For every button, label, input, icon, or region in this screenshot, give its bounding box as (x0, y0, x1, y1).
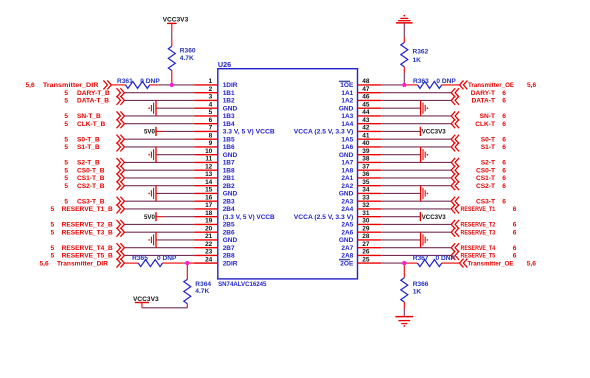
resistor R365 (138, 260, 162, 267)
wire pin 34 stub (358, 192, 382, 194)
svg-text:RESERVE_T3_B: RESERVE_T3_B (62, 229, 113, 236)
svg-text:S2-T: S2-T (481, 160, 495, 167)
svg-text:25: 25 (362, 256, 370, 263)
ground symbol at pin 4 (148, 100, 156, 116)
wire pin 19 stub (194, 223, 218, 225)
off-page connector S1-T_B (117, 142, 125, 151)
svg-text:48: 48 (362, 78, 370, 85)
svg-text:U26: U26 (218, 60, 231, 69)
svg-text:5: 5 (64, 160, 68, 167)
wire pin 38 stub (358, 161, 382, 163)
svg-text:CLK-T: CLK-T (475, 121, 495, 128)
svg-text:2B1: 2B1 (223, 175, 235, 182)
svg-text:R366: R366 (413, 281, 429, 288)
svg-text:2B2: 2B2 (223, 183, 235, 190)
wire pin 14 stub (194, 185, 218, 187)
wire pin 27 stub (358, 247, 382, 249)
svg-text:S1-T: S1-T (481, 144, 495, 151)
power symbol VCC3V3 top left (167, 22, 177, 24)
svg-text:VCC3V3: VCC3V3 (163, 17, 189, 24)
wire R363 to connector (442, 84, 460, 86)
wire R366 to ground (403, 309, 405, 316)
wire pin 3 stub (194, 99, 218, 101)
svg-text:36: 36 (362, 171, 370, 178)
svg-text:0 DNP: 0 DNP (157, 255, 177, 262)
wire pin 4 stub (194, 107, 218, 109)
wire pin 44 stub (358, 115, 382, 117)
svg-text:6: 6 (513, 222, 517, 229)
wire R367 to connector (442, 262, 460, 264)
wire VCC3V3 to R360 mid (171, 31, 173, 40)
off-page connector DATA-T (451, 96, 459, 105)
wire pin 45 stub (358, 107, 382, 109)
svg-text:3: 3 (209, 94, 213, 101)
wire net SN-T_B (124, 115, 194, 117)
junction node pin48 (402, 83, 406, 87)
wire net CS3-T_B (124, 200, 194, 202)
wire net S2-T_B (124, 161, 194, 163)
svg-text:SN-T_B: SN-T_B (77, 113, 101, 120)
wire net RESERVE_T1 (381, 208, 451, 210)
svg-text:43: 43 (362, 117, 370, 124)
svg-text:SN74ALVC16245: SN74ALVC16245 (218, 281, 267, 288)
svg-text:1A6: 1A6 (341, 144, 353, 151)
wire net RESERVE_T4_B (124, 247, 194, 249)
power tap 5V0 pin 7 (155, 127, 157, 136)
svg-text:GND: GND (339, 191, 354, 198)
svg-text:CS0-T_B: CS0-T_B (77, 167, 105, 174)
junction node pin1 (170, 83, 174, 87)
svg-text:6: 6 (502, 144, 506, 151)
off-page connector S0-T_B (117, 135, 125, 144)
svg-text:37: 37 (362, 164, 370, 171)
wire GND pin 45 (381, 107, 420, 109)
svg-text:1B3: 1B3 (223, 113, 235, 120)
wire VCC3V3 to R360 low (171, 39, 173, 46)
off-page connector RESERVE_T1 (451, 204, 459, 213)
off-page connector SN-T_B (117, 111, 125, 120)
svg-text:2A7: 2A7 (341, 245, 353, 252)
off-page connector RESERVE_T2 (451, 220, 459, 229)
wire pin 31 stub (358, 216, 382, 218)
svg-text:S1-T_B: S1-T_B (77, 144, 100, 151)
wire pin 26 stub (358, 254, 382, 256)
svg-text:6: 6 (502, 113, 506, 120)
svg-text:R365: R365 (132, 255, 148, 262)
wire VCC3V3 pin 42 (381, 130, 420, 132)
svg-text:GND: GND (339, 237, 354, 244)
svg-text:6: 6 (502, 175, 506, 182)
svg-text:35: 35 (362, 179, 370, 186)
off-page connector CS2-T_B (117, 181, 125, 190)
wire net CS3-T (381, 200, 451, 202)
svg-text:6: 6 (502, 160, 506, 167)
wire pin 48 stub (358, 84, 382, 86)
svg-text:CS3-T: CS3-T (476, 198, 495, 205)
svg-text:11: 11 (205, 156, 212, 163)
svg-text:46: 46 (362, 94, 370, 101)
svg-text:1K: 1K (413, 57, 422, 64)
svg-text:CS2-T_B: CS2-T_B (77, 183, 105, 190)
wire net CS2-T_B (124, 185, 194, 187)
wire pin 8 stub (194, 138, 218, 140)
wire node to pin 1 (172, 84, 195, 86)
svg-text:RESERVE_T5_B: RESERVE_T5_B (62, 253, 113, 260)
svg-text:RESERVE_T4: RESERVE_T4 (461, 245, 496, 252)
wire GND pin 39 (381, 154, 420, 156)
svg-text:2DIR: 2DIR (223, 260, 238, 267)
svg-text:Transmitter_OE: Transmitter_OE (468, 82, 515, 89)
svg-text:VCCA (2.5 V, 3.3 V): VCCA (2.5 V, 3.3 V) (294, 214, 354, 221)
svg-text:GND: GND (339, 152, 354, 159)
svg-text:20: 20 (205, 226, 213, 233)
wire R361 to node (159, 84, 172, 86)
svg-text:5,6: 5,6 (26, 82, 35, 89)
svg-text:2A3: 2A3 (341, 199, 353, 206)
power symbol VCC3V3 bottom left (135, 302, 149, 304)
wire pin 15 stub (194, 192, 218, 194)
svg-text:5: 5 (51, 253, 55, 260)
svg-text:23: 23 (205, 249, 213, 256)
svg-text:S0-T_B: S0-T_B (77, 136, 100, 143)
svg-text:38: 38 (362, 156, 370, 163)
svg-text:CS2-T: CS2-T (476, 183, 495, 190)
resistor R364 (184, 279, 191, 303)
resistor R361 (126, 81, 150, 88)
svg-text:2B3: 2B3 (223, 199, 235, 206)
svg-text:R362: R362 (413, 48, 429, 55)
svg-text:5: 5 (64, 98, 68, 105)
svg-text:RESERVE_T4_B: RESERVE_T4_B (62, 245, 113, 252)
svg-text:4.7K: 4.7K (195, 288, 209, 295)
wire GND pin 28 (381, 239, 420, 241)
svg-text:8: 8 (209, 133, 213, 140)
svg-text:21: 21 (205, 233, 213, 240)
off-page connector S2-T_B (117, 158, 125, 167)
svg-text:5: 5 (64, 167, 68, 174)
svg-text:33: 33 (362, 195, 370, 202)
off-page connector RESERVE_T4 (451, 243, 459, 252)
off-page connector CLK-T_B (117, 119, 125, 128)
svg-text:2A6: 2A6 (341, 230, 353, 237)
svg-text:26: 26 (362, 249, 370, 256)
wire pin 2 stub (194, 92, 218, 94)
svg-text:2A5: 2A5 (341, 222, 353, 229)
ground symbol at pin 45 (421, 100, 429, 116)
svg-text:6: 6 (513, 206, 517, 213)
off-page connector RESERVE_T2_B (117, 220, 125, 229)
svg-text:1A7: 1A7 (341, 160, 353, 167)
ground symbol at pin 15 (148, 185, 156, 201)
wire pin 21 stub (194, 239, 218, 241)
svg-text:1: 1 (209, 78, 213, 85)
svg-text:6: 6 (502, 90, 506, 97)
wire 5V0 pin 7 (164, 130, 194, 132)
svg-text:2B5: 2B5 (223, 222, 235, 229)
svg-text:5: 5 (51, 222, 55, 229)
wire net CS0-T (381, 169, 451, 171)
svg-text:12: 12 (205, 164, 213, 171)
wire net SN-T (381, 115, 451, 117)
wire pin 46 stub (358, 99, 382, 101)
svg-text:GND: GND (223, 237, 238, 244)
off-page connector CS1-T_B (117, 173, 125, 182)
svg-text:2A8: 2A8 (341, 253, 353, 260)
wire pin 37 stub (358, 169, 382, 171)
svg-text:47: 47 (362, 86, 370, 93)
svg-text:40: 40 (362, 140, 370, 147)
svg-text:5: 5 (51, 206, 55, 213)
wire net RESERVE_T5 (381, 254, 451, 256)
ground symbol top right (396, 15, 413, 23)
svg-text:2OE: 2OE (340, 260, 354, 267)
svg-text:R361: R361 (117, 78, 133, 85)
svg-text:1K: 1K (413, 288, 422, 295)
off-page connector RESERVE_T1_B (117, 204, 125, 213)
svg-text:5: 5 (64, 136, 68, 143)
wire net RESERVE_T3 (381, 231, 451, 233)
svg-text:6: 6 (502, 167, 506, 174)
svg-text:5,6: 5,6 (527, 260, 536, 267)
junction node pin24 (185, 261, 189, 265)
svg-text:32: 32 (362, 202, 370, 209)
svg-text:CS0-T: CS0-T (476, 167, 495, 174)
svg-text:S2-T_B: S2-T_B (77, 160, 100, 167)
svg-text:29: 29 (362, 226, 370, 233)
svg-text:6: 6 (209, 117, 213, 124)
svg-text:VCCA (2.5 V, 3.3 V): VCCA (2.5 V, 3.3 V) (294, 129, 354, 136)
wire node to R367 (404, 262, 417, 264)
wire pin 13 stub (194, 177, 218, 179)
svg-text:45: 45 (362, 102, 370, 109)
svg-text:1A4: 1A4 (341, 121, 353, 128)
power tap 5V0 pin 18 (155, 212, 157, 221)
wire VCC3V3 stub (141, 303, 143, 308)
svg-text:R367: R367 (413, 255, 429, 262)
svg-text:30: 30 (362, 218, 370, 225)
svg-text:5: 5 (64, 113, 68, 120)
svg-text:GND: GND (223, 152, 238, 159)
svg-text:5: 5 (64, 183, 68, 190)
off-page connector S2-T (451, 158, 459, 167)
wire pin 20 stub (194, 231, 218, 233)
svg-text:5V0: 5V0 (144, 214, 156, 221)
wire pin 47 stub (358, 92, 382, 94)
wire pin 16 stub (194, 200, 218, 202)
wire pin 23 stub (194, 254, 218, 256)
svg-text:6: 6 (502, 136, 506, 143)
wire pin 6 stub (194, 123, 218, 125)
off-page connector CS1-T (451, 173, 459, 182)
svg-text:42: 42 (362, 125, 370, 132)
wire R365 to node (163, 262, 184, 264)
resistor R363 (418, 81, 442, 88)
svg-text:13: 13 (205, 171, 213, 178)
wire net RESERVE_T5_B (124, 254, 194, 256)
wire node to R364 (186, 263, 188, 279)
wire GND pin 15 (156, 192, 194, 194)
U26 pin 25 2OE overline (339, 259, 350, 261)
wire pin 43 stub (358, 123, 382, 125)
wire pin 7 stub (194, 130, 218, 132)
wire pin 29 stub (358, 231, 382, 233)
svg-text:VCC3V3: VCC3V3 (422, 129, 447, 136)
off-page connector RESERVE_T3_B (117, 228, 125, 237)
wire R360 to node (171, 71, 173, 85)
wire Transmitter_DIR to R365 (124, 262, 138, 264)
wire net RESERVE_T3_B (124, 231, 194, 233)
svg-text:5: 5 (51, 245, 55, 252)
svg-text:S0-T: S0-T (481, 136, 495, 143)
svg-text:1B2: 1B2 (223, 98, 235, 105)
svg-text:9: 9 (209, 140, 213, 147)
wire 5V0 pin 18 (164, 216, 194, 218)
off-page connector Transmitter_DIR top (103, 80, 111, 89)
svg-text:31: 31 (362, 210, 370, 217)
wire R361 to node red (150, 84, 159, 86)
svg-text:5: 5 (209, 109, 213, 116)
svg-text:Transmitter_DIR: Transmitter_DIR (43, 82, 99, 89)
svg-text:14: 14 (205, 179, 213, 186)
svg-text:6: 6 (502, 98, 506, 105)
svg-text:18: 18 (205, 210, 213, 217)
off-page connector RESERVE_T4_B (117, 243, 125, 252)
svg-text:4: 4 (209, 102, 213, 109)
wire pin 22 stub (194, 247, 218, 249)
wire pin 36 stub (358, 177, 382, 179)
svg-text:1DIR: 1DIR (223, 82, 238, 89)
svg-text:4.7K: 4.7K (180, 55, 194, 62)
wire pin 17 stub (194, 208, 218, 210)
wire pin 1 stub (194, 84, 218, 86)
svg-text:6: 6 (513, 229, 517, 236)
wire pin 25 stub (358, 262, 382, 264)
svg-text:6: 6 (502, 183, 506, 190)
svg-text:5: 5 (51, 229, 55, 236)
IC U26 body (SN74ALVC16245 transceiver) (218, 69, 358, 279)
svg-text:1B7: 1B7 (223, 160, 235, 167)
wire pin 42 stub (358, 130, 382, 132)
wire ground to R362 dark (403, 23, 405, 37)
ground symbol at pin 34 (421, 185, 429, 201)
svg-text:RESERVE_T1_B: RESERVE_T1_B (62, 206, 113, 213)
svg-text:2B4: 2B4 (223, 206, 235, 213)
svg-text:DATA-T: DATA-T (471, 98, 495, 105)
svg-text:CS1-T: CS1-T (476, 175, 495, 182)
wire pin 12 stub (194, 169, 218, 171)
wire net S0-T (381, 138, 451, 140)
off-page connector SN-T (451, 111, 459, 120)
wire GND pin 10 (156, 154, 194, 156)
svg-text:5: 5 (64, 90, 68, 97)
svg-text:(3.3 V, 5 V) VCCB: (3.3 V, 5 V) VCCB (223, 214, 275, 221)
svg-text:Transmitter_OE: Transmitter_OE (468, 260, 515, 267)
off-page connector Transmitter_OE top (460, 80, 468, 89)
svg-text:5: 5 (64, 144, 68, 151)
wire net CLK-T_B (124, 123, 194, 125)
wire net DARY-T (381, 92, 451, 94)
svg-text:7: 7 (209, 125, 213, 132)
svg-text:1B6: 1B6 (223, 144, 235, 151)
svg-text:44: 44 (362, 109, 370, 116)
wire net DATA-T (381, 99, 451, 101)
svg-text:6: 6 (502, 198, 506, 205)
svg-text:10: 10 (205, 148, 213, 155)
wire GND pin 21 (156, 239, 194, 241)
off-page connector S0-T (451, 135, 459, 144)
ground symbol at pin 10 (148, 147, 156, 163)
ground symbol at pin 28 (421, 232, 429, 248)
wire net S0-T_B (124, 138, 194, 140)
ground symbol bottom right (395, 317, 413, 327)
ground symbol at pin 21 (148, 232, 156, 248)
svg-text:2: 2 (209, 86, 213, 93)
svg-text:RESERVE_T2: RESERVE_T2 (461, 222, 496, 229)
wire ground to R362 red (403, 37, 405, 43)
svg-text:5,6: 5,6 (40, 260, 49, 267)
svg-text:RESERVE_T1: RESERVE_T1 (461, 206, 496, 213)
svg-text:3.3 V, 5 V) VCCB: 3.3 V, 5 V) VCCB (223, 129, 275, 136)
svg-text:2B7: 2B7 (223, 245, 235, 252)
wire pin 35 stub (358, 185, 382, 187)
svg-text:0 DNP: 0 DNP (436, 78, 456, 85)
svg-text:R360: R360 (180, 48, 196, 55)
svg-text:GND: GND (339, 106, 354, 113)
junction node pin25 (402, 261, 406, 265)
svg-text:1OE: 1OE (340, 82, 354, 89)
svg-text:1B8: 1B8 (223, 168, 235, 175)
svg-text:6: 6 (502, 121, 506, 128)
off-page connector CS3-T (451, 197, 459, 206)
off-page connector CLK-T (451, 119, 459, 128)
off-page connector DARY-T_B (117, 88, 125, 97)
off-page connector Transmitter_OE bottom (460, 259, 468, 268)
power tap VCC3V3 pin 42 (419, 127, 421, 136)
wire 5V0 pin 7 red (156, 130, 164, 132)
wire Transmitter_DIR to R361 (111, 84, 125, 86)
svg-text:2B6: 2B6 (223, 230, 235, 237)
wire pin 28 stub (358, 239, 382, 241)
svg-text:5: 5 (64, 198, 68, 205)
wire node to R366 (403, 263, 405, 278)
svg-text:1B4: 1B4 (223, 121, 235, 128)
svg-text:VCC3V3: VCC3V3 (133, 296, 159, 303)
wire pin 39 stub (358, 154, 382, 156)
svg-text:24: 24 (205, 256, 213, 263)
wire net CS2-T (381, 185, 451, 187)
wire net RESERVE_T2 (381, 223, 451, 225)
wire pin 25 to node (381, 262, 404, 264)
svg-text:DARY-T: DARY-T (471, 90, 495, 97)
resistor R360 (168, 46, 175, 70)
wire node to pin 24 (187, 262, 218, 264)
svg-text:1A3: 1A3 (341, 113, 353, 120)
svg-text:R364: R364 (195, 281, 211, 288)
wire VCC3V3 pin 31 (381, 216, 420, 218)
wire pin 11 stub (194, 161, 218, 163)
wire R365 node gap (184, 262, 188, 264)
wire net S1-T (381, 146, 451, 148)
svg-text:0 DNP: 0 DNP (436, 255, 456, 262)
svg-text:GND: GND (223, 191, 238, 198)
wire net CS0-T_B (124, 169, 194, 171)
svg-text:GND: GND (223, 106, 238, 113)
svg-text:RESERVE_T5: RESERVE_T5 (461, 253, 496, 260)
svg-text:2A4: 2A4 (341, 206, 353, 213)
wire pin 9 stub (194, 146, 218, 148)
wire net RESERVE_T1_B (124, 208, 194, 210)
off-page connector RESERVE_T5 (451, 251, 459, 260)
